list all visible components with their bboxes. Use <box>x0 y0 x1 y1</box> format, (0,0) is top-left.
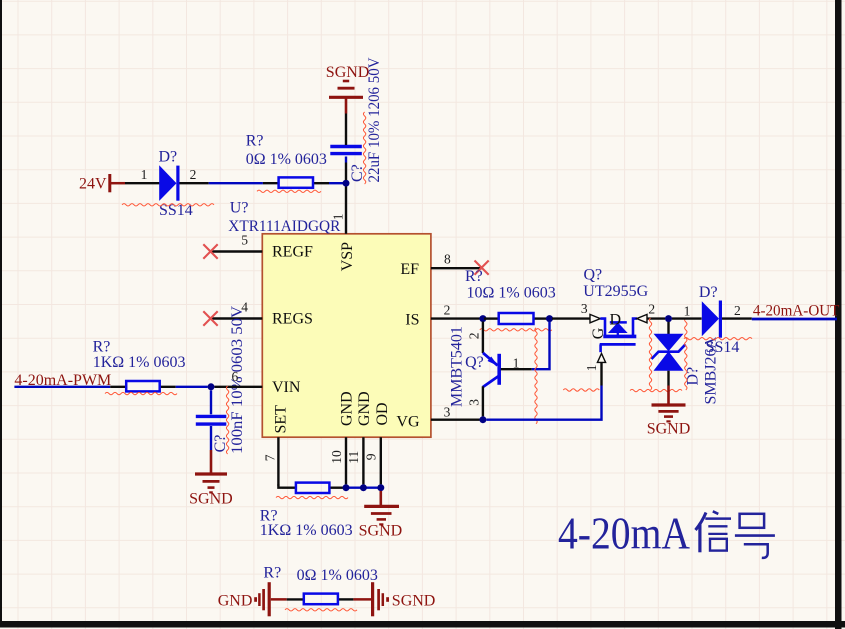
svg-text:MMBT5401: MMBT5401 <box>449 326 466 407</box>
error squiggle under R5 <box>285 609 357 611</box>
resistor R? 1K (input) <box>93 339 186 392</box>
power port SGND (top) <box>326 64 370 114</box>
svg-text:D?: D? <box>159 148 178 165</box>
power port SGND (under TVS) <box>647 386 691 438</box>
resistor R? 10ohm <box>465 268 556 324</box>
svg-text:1: 1 <box>584 365 599 372</box>
wire base to R4 junction <box>532 322 550 370</box>
resistor R? 0ohm (top) <box>246 133 329 188</box>
svg-text:4-20mA-OUT: 4-20mA-OUT <box>753 303 840 320</box>
error squiggle under D3 <box>684 338 752 340</box>
svg-text:4-20mA: 4-20mA <box>558 508 690 559</box>
junction node 24V/VSP <box>343 180 350 187</box>
svg-text:SS14: SS14 <box>159 202 193 219</box>
svg-text:D?: D? <box>699 284 718 301</box>
svg-text:7: 7 <box>263 454 278 461</box>
error squiggle under TVS <box>630 389 682 391</box>
wire VG to gate <box>486 386 601 420</box>
svg-text:2: 2 <box>467 333 482 340</box>
wire 4-20mA-OUT <box>752 318 837 321</box>
svg-text:SET: SET <box>272 405 289 434</box>
svg-text:UT2955G: UT2955G <box>583 283 648 300</box>
transistor Q? MMBT5401 <box>449 322 532 417</box>
pin 7 SET <box>263 437 279 485</box>
svg-text:2: 2 <box>648 301 655 316</box>
wire SET pin corner <box>278 485 282 488</box>
svg-text:1KΩ 1% 0603: 1KΩ 1% 0603 <box>93 354 186 371</box>
error squiggle under R4 <box>480 329 552 331</box>
power port SGND (under C2) <box>189 450 233 507</box>
diode D? SS14 (input) <box>125 148 209 219</box>
svg-text:R?: R? <box>465 268 483 285</box>
junction node base/R4 <box>546 315 553 322</box>
svg-text:GND: GND <box>356 391 373 426</box>
svg-text:GND: GND <box>339 391 356 426</box>
svg-text:2: 2 <box>444 302 451 317</box>
junction node IS <box>479 315 486 322</box>
pin 11 GND <box>346 437 363 484</box>
pin 2 IS <box>431 302 480 318</box>
pin 5 REGF <box>211 232 262 251</box>
error squiggle right of C2 <box>226 386 228 454</box>
op-amp U? XTR111AIDGQR body <box>228 200 431 438</box>
svg-text:SS14: SS14 <box>706 339 740 356</box>
svg-text:1: 1 <box>141 167 148 182</box>
svg-text:R?: R? <box>263 564 281 581</box>
svg-text:EF: EF <box>400 261 419 278</box>
hanzi XIN (信) <box>696 511 732 552</box>
diode D? SMBJ26A (TVS) <box>652 322 720 405</box>
svg-text:24V: 24V <box>79 175 107 192</box>
junction node VIN <box>208 383 215 390</box>
svg-text:REGF: REGF <box>272 244 313 261</box>
no-ERC marker on pin 4 <box>203 311 217 325</box>
error squiggle right of Q1 <box>535 328 537 424</box>
no-ERC marker on pin 8 <box>475 261 489 275</box>
wire 24V net to resistor <box>209 182 263 184</box>
svg-text:VIN: VIN <box>272 379 301 396</box>
svg-text:D?: D? <box>685 367 702 386</box>
pin 9 OD <box>364 437 381 484</box>
power port GND (bottom) <box>218 582 287 616</box>
svg-text:SGND: SGND <box>326 64 370 81</box>
svg-text:2: 2 <box>734 303 741 318</box>
wire to junction <box>329 182 343 184</box>
svg-text:9: 9 <box>364 453 379 460</box>
error squiggle under D1 <box>122 204 214 206</box>
svg-text:GND: GND <box>218 593 253 610</box>
wire to VIN junction <box>176 386 208 388</box>
error squiggle left of TVS <box>649 318 651 390</box>
svg-text:3: 3 <box>581 301 588 316</box>
svg-text:SGND: SGND <box>189 490 233 507</box>
transistor Q? UT2955G (PMOS) <box>581 267 655 386</box>
svg-text:OD: OD <box>374 402 391 425</box>
svg-text:1: 1 <box>684 304 691 319</box>
svg-text:Q?: Q? <box>465 354 484 371</box>
svg-text:G: G <box>590 327 607 339</box>
svg-text:10Ω 1% 0603: 10Ω 1% 0603 <box>467 285 556 302</box>
pin 8 EF <box>431 252 483 269</box>
resistor R? 0ohm (bottom) <box>263 564 377 604</box>
junction node pin10 <box>343 484 350 491</box>
svg-text:1: 1 <box>331 214 346 221</box>
svg-text:IS: IS <box>405 312 419 329</box>
svg-text:0Ω 1% 0603: 0Ω 1% 0603 <box>246 151 327 168</box>
svg-text:8: 8 <box>444 252 451 267</box>
wire linking GND/OD pins <box>343 487 381 489</box>
error squiggle under R3 <box>276 496 348 498</box>
svg-text:1: 1 <box>513 356 520 371</box>
wire R4 to mosfet source <box>552 317 590 319</box>
error squiggle right of TVS <box>685 318 687 390</box>
svg-text:10: 10 <box>329 450 344 464</box>
hanzi HAO (号) <box>735 514 775 558</box>
wire mosfet drain to junction <box>647 317 665 319</box>
resistor R? 1K (SET) <box>260 483 353 539</box>
junction node VG <box>479 416 486 423</box>
error squiggle under gate <box>563 389 599 391</box>
power port SGND (under SET network) <box>359 491 403 540</box>
svg-text:D: D <box>610 312 622 329</box>
svg-text:5: 5 <box>241 232 248 247</box>
capacitor C? 22uF <box>330 57 383 182</box>
pin 10 GND <box>329 437 346 484</box>
svg-text:3: 3 <box>467 399 482 406</box>
pin 6 VIN <box>215 369 263 387</box>
svg-text:1KΩ 1% 0603: 1KΩ 1% 0603 <box>260 522 353 539</box>
text 4-20mA signal title <box>558 508 690 559</box>
error squiggle under R2 <box>105 392 177 394</box>
no-ERC marker on pin 5 <box>203 244 217 258</box>
pin 1 VSP <box>331 187 347 234</box>
svg-text:SGND: SGND <box>392 593 436 610</box>
svg-text:0Ω 1% 0603: 0Ω 1% 0603 <box>297 567 378 584</box>
power port 24V <box>79 174 125 192</box>
junction node pin9 <box>377 484 384 491</box>
error squiggle under R1 <box>257 190 321 192</box>
svg-text:SGND: SGND <box>647 420 691 437</box>
svg-text:VSP: VSP <box>339 242 356 271</box>
net label 4-20mA-OUT <box>753 303 840 320</box>
capacitor C? 100nF <box>196 306 246 454</box>
svg-text:11: 11 <box>346 451 361 464</box>
junction node OUT <box>665 315 672 322</box>
pin 3 VG <box>431 404 480 419</box>
svg-text:R?: R? <box>246 133 264 150</box>
net label 4-20mA-PWM <box>14 372 111 389</box>
svg-text:VG: VG <box>396 413 420 430</box>
power port SGND (bottom) <box>353 582 435 616</box>
svg-text:U?: U? <box>230 200 249 217</box>
junction node pin11 <box>360 484 367 491</box>
svg-text:2: 2 <box>190 167 197 182</box>
pin 4 REGS <box>211 300 262 319</box>
svg-text:REGS: REGS <box>272 311 313 328</box>
error squiggle right of C1 <box>363 112 365 184</box>
wire 4-20mA-PWM <box>14 386 110 388</box>
diode D? SS14 (output) <box>672 284 752 356</box>
svg-text:6: 6 <box>232 369 239 384</box>
svg-text:SGND: SGND <box>359 522 403 539</box>
svg-text:Q?: Q? <box>584 267 603 284</box>
